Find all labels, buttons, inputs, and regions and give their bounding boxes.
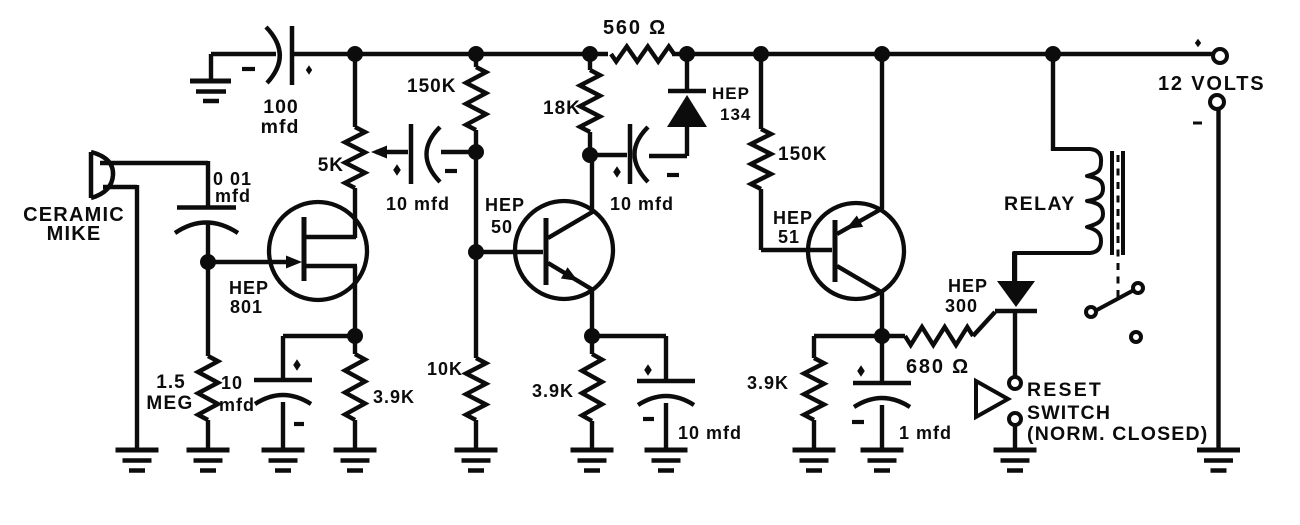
node 18K-collector junction — [582, 147, 598, 163]
transistor Q1 HEP 801 — [208, 202, 367, 317]
node rail-relay junction — [1045, 46, 1061, 62]
capacitor C3 10 mfd — [219, 359, 312, 424]
wire top supply rail mid segment — [294, 52, 608, 56]
thyristor HEP 300 — [945, 276, 1037, 316]
svg-text:mfd: mfd — [219, 395, 255, 415]
svg-text:HEP: HEP — [485, 195, 525, 215]
svg-text:150K: 150K — [778, 144, 827, 165]
wire emitter node to C6 — [592, 336, 666, 382]
capacitor C5 10 mfd — [610, 124, 679, 214]
svg-text:mfd: mfd — [215, 186, 251, 206]
capacitor C2 0 01 mfd — [175, 169, 252, 233]
wire 150K2 to Q3 base — [761, 189, 832, 250]
svg-text:3.9K: 3.9K — [747, 373, 789, 393]
wire Q3 collector down — [880, 292, 884, 336]
ground 3.9K second — [571, 450, 614, 471]
relay contact upper — [1133, 283, 1143, 293]
svg-text:RELAY: RELAY — [1004, 193, 1076, 215]
node rail-150K2 junction — [753, 46, 769, 62]
node rail-diode junction — [679, 46, 695, 62]
capacitor C6 10 mfd — [637, 364, 742, 443]
svg-text:MIKE: MIKE — [47, 223, 102, 245]
transistor Q3 HEP 51 — [773, 203, 904, 299]
resistor 150K (second) — [751, 129, 827, 189]
ground 10K — [455, 450, 498, 471]
wire 5K to Q1 drain — [353, 188, 357, 238]
potentiometer 5K — [318, 127, 408, 188]
resistor 1.5 MEG — [146, 356, 218, 420]
wire Q3 emitter up — [880, 54, 884, 209]
node Q1 gate — [200, 254, 216, 270]
relay contact pivot — [1086, 307, 1096, 317]
wire reset to ground — [1013, 425, 1017, 450]
svg-text:10 mfd: 10 mfd — [386, 194, 450, 214]
capacitor C1 100 mfd — [242, 26, 312, 138]
wire node to 680 — [882, 334, 905, 338]
ground top-left — [190, 54, 231, 101]
wire 10K to ground — [474, 420, 478, 450]
svg-text:HEP: HEP — [773, 208, 813, 228]
wire rail to 150K2 — [759, 54, 763, 129]
svg-text:10K: 10K — [427, 359, 463, 379]
wire mike top lead — [100, 161, 208, 206]
svg-text:mfd: mfd — [261, 116, 300, 138]
relay coil — [1004, 149, 1103, 281]
wire C3 to ground — [281, 402, 285, 450]
wire Q2 emitter down — [590, 289, 594, 336]
relay actuator dashed link — [1117, 155, 1120, 299]
wire top supply rail right segment — [672, 52, 1214, 56]
wire rail to 18K — [588, 54, 592, 70]
transistor Q2 HEP 50 — [476, 195, 613, 299]
wire SCR anode — [1013, 252, 1017, 281]
svg-text:3.9K: 3.9K — [532, 381, 574, 401]
resistor 3.9K (Q1 source) — [345, 354, 415, 420]
wire rail to 150K — [474, 54, 478, 67]
wire node down to Q2 base — [474, 152, 478, 252]
svg-text:SWITCH: SWITCH — [1027, 402, 1111, 424]
node Q1 source junction — [347, 328, 363, 344]
ground 3.9K third — [793, 450, 836, 471]
node rail-150K junction — [468, 46, 484, 62]
svg-text:HEP: HEP — [948, 276, 988, 296]
svg-text:560 Ω: 560 Ω — [603, 17, 667, 39]
terminal +12 volts — [1158, 39, 1265, 95]
wire C5 to diode — [649, 127, 687, 156]
node rail-Q3 junction — [874, 46, 890, 62]
ground C3 — [262, 450, 305, 471]
wire rail to 5K — [353, 54, 357, 127]
ground negative rail — [1197, 450, 1240, 471]
capacitor C7 1 mfd — [852, 365, 952, 443]
svg-text:801: 801 — [230, 297, 263, 317]
reset switch — [976, 377, 1208, 445]
node Q2 emitter junction — [584, 328, 600, 344]
svg-text:12 VOLTS: 12 VOLTS — [1158, 73, 1265, 95]
wire base node down — [474, 252, 478, 358]
svg-text:HEP: HEP — [712, 84, 750, 103]
ground 3.9K first — [334, 450, 377, 471]
svg-text:100: 100 — [263, 96, 299, 118]
svg-text:1.5: 1.5 — [156, 372, 185, 393]
wire 3.9K to ground — [353, 336, 357, 450]
ceramic mike — [23, 152, 125, 245]
capacitor C4 10 mfd — [386, 124, 457, 214]
diode D1 HEP 134 — [667, 84, 751, 127]
wire C6 to ground — [664, 403, 668, 450]
wire 1.5MEG to ground — [206, 420, 210, 450]
resistor 3.9K (Q2 emitter) — [532, 354, 602, 421]
wire 18K node to C5 — [590, 153, 627, 157]
wire 150K to node — [474, 130, 478, 152]
wire 680 to SCR gate — [973, 312, 995, 336]
resistor 680 ohm — [905, 327, 973, 378]
node 150K-C4 junction — [468, 144, 484, 160]
wire gate node down — [206, 262, 210, 356]
ground 1.5MEG — [187, 450, 230, 471]
resistor 150K (first) — [407, 67, 486, 130]
relay contact lever — [1095, 290, 1134, 311]
ground mike — [116, 450, 159, 471]
svg-text:680 Ω: 680 Ω — [906, 356, 970, 378]
svg-text:HEP: HEP — [229, 278, 269, 298]
svg-text:10 mfd: 10 mfd — [678, 423, 742, 443]
terminal -12 volts — [1193, 95, 1224, 123]
wire 3.9K3 to ground — [812, 420, 816, 450]
svg-text:MEG: MEG — [146, 393, 193, 414]
svg-text:300: 300 — [945, 296, 978, 316]
svg-text:51: 51 — [778, 227, 800, 247]
ground reset switch — [994, 450, 1037, 471]
svg-text:10 mfd: 10 mfd — [610, 194, 674, 214]
wire SCR cathode — [1013, 311, 1017, 377]
wire C4 to node — [441, 150, 476, 154]
node rail-5K junction — [347, 46, 363, 62]
svg-text:3.9K: 3.9K — [373, 387, 415, 407]
node rail-18K junction — [582, 46, 598, 62]
svg-text:10: 10 — [221, 373, 243, 393]
svg-text:50: 50 — [491, 217, 513, 237]
resistor 560 ohm — [603, 17, 674, 62]
wire C7 to ground — [880, 405, 884, 450]
wire collector node to C7 — [880, 336, 884, 384]
wire negative terminal down — [1216, 109, 1220, 450]
wire 3.9K2 wires — [590, 336, 594, 450]
wire 18K to node — [588, 132, 592, 155]
resistor 3.9K (Q3) — [747, 358, 824, 420]
wire mike bottom lead — [103, 185, 137, 450]
wire collector node left — [814, 336, 882, 358]
node Q2 base junction — [468, 244, 484, 260]
svg-text:(NORM. CLOSED): (NORM. CLOSED) — [1027, 423, 1208, 445]
wire rail to relay — [1051, 54, 1055, 151]
wire C2 to gate node — [206, 223, 210, 262]
wire top supply rail left segment — [211, 52, 276, 56]
svg-text:18K: 18K — [543, 98, 581, 119]
ground C6 — [645, 450, 688, 471]
relay core — [1112, 151, 1123, 255]
relay contact lower — [1131, 332, 1141, 342]
svg-text:RESET: RESET — [1027, 379, 1103, 401]
wire Q2 collector up — [590, 155, 594, 212]
wire Q1 source down — [353, 266, 357, 336]
ground C7 — [861, 450, 904, 471]
resistor 18K — [543, 70, 600, 132]
svg-text:150K: 150K — [407, 76, 456, 97]
resistor 10K — [427, 358, 486, 420]
svg-text:1 mfd: 1 mfd — [899, 423, 952, 443]
node Q3 collector junction — [874, 328, 890, 344]
svg-text:5K: 5K — [318, 155, 344, 176]
svg-text:134: 134 — [720, 105, 751, 124]
wire source node to C3 — [283, 336, 355, 381]
wire rail to diode — [685, 54, 689, 91]
